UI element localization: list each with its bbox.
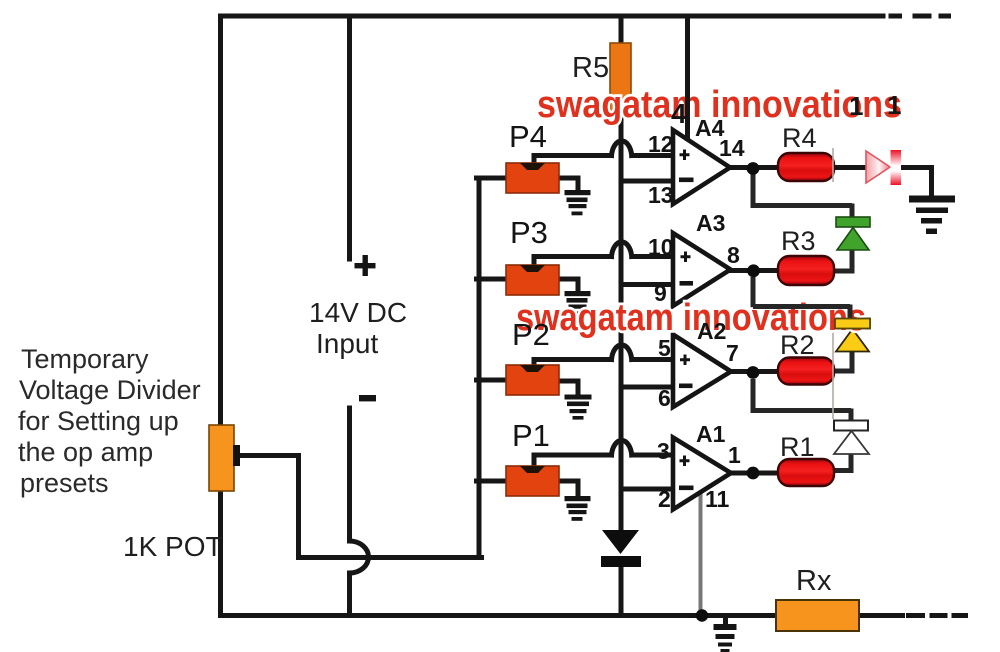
svg-text:13: 13 xyxy=(648,182,674,208)
svg-text:the op amp: the op amp xyxy=(18,437,153,467)
svg-text:Rx: Rx xyxy=(796,565,832,597)
svg-text:for Setting up: for Setting up xyxy=(18,406,179,436)
svg-text:A3: A3 xyxy=(696,210,725,236)
svg-text:1: 1 xyxy=(849,91,863,121)
svg-text:A4: A4 xyxy=(695,115,725,141)
svg-text:presets: presets xyxy=(20,468,109,498)
svg-text:7: 7 xyxy=(726,340,739,366)
svg-text:Temporary: Temporary xyxy=(21,344,149,374)
svg-text:1K POT: 1K POT xyxy=(123,531,223,562)
svg-text:R1: R1 xyxy=(780,432,815,462)
svg-text:Input: Input xyxy=(316,328,378,359)
svg-text:5: 5 xyxy=(658,335,671,361)
svg-text:1: 1 xyxy=(728,442,741,468)
svg-text:1: 1 xyxy=(887,90,901,120)
svg-text:2: 2 xyxy=(658,486,671,512)
svg-text:4: 4 xyxy=(671,98,687,129)
svg-text:11: 11 xyxy=(705,486,730,512)
svg-text:P1: P1 xyxy=(512,418,550,453)
svg-text:swagatam innovations: swagatam innovations xyxy=(516,297,866,339)
svg-text:6: 6 xyxy=(658,385,671,411)
svg-text:3: 3 xyxy=(657,438,670,464)
svg-text:12: 12 xyxy=(648,131,674,157)
svg-text:8: 8 xyxy=(727,242,740,268)
svg-text:A1: A1 xyxy=(696,421,726,447)
svg-text:R3: R3 xyxy=(781,226,816,256)
svg-text:R5: R5 xyxy=(572,52,609,84)
svg-text:P4: P4 xyxy=(509,119,547,154)
svg-text:P2: P2 xyxy=(512,317,550,352)
svg-text:14V DC: 14V DC xyxy=(309,297,407,328)
svg-text:R4: R4 xyxy=(782,123,817,153)
svg-text:A2: A2 xyxy=(697,318,726,344)
svg-text:9: 9 xyxy=(654,280,667,306)
svg-text:P3: P3 xyxy=(510,215,548,250)
svg-text:Voltage Divider: Voltage Divider xyxy=(19,375,201,405)
svg-text:10: 10 xyxy=(648,234,674,260)
